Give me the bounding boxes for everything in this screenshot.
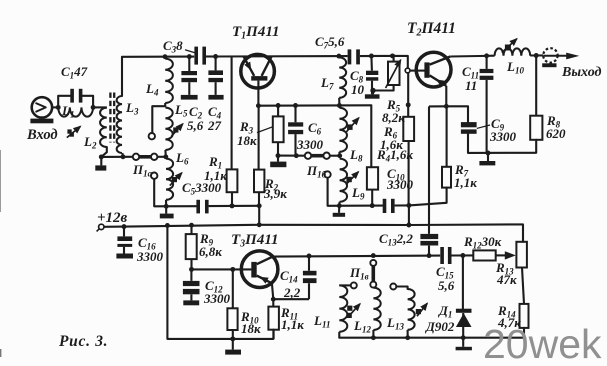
resistor R13 47k box	[516, 242, 527, 268]
node T2 base divider	[406, 102, 411, 107]
inductor L7	[339, 57, 346, 97]
switch P1b contact right	[323, 153, 329, 159]
node C8 top	[369, 54, 374, 59]
node T3 emitter	[271, 297, 276, 302]
switch P1a contact right	[151, 154, 157, 160]
svg-text:18к: 18к	[237, 133, 257, 148]
capacitor C1 47 plates	[70, 89, 74, 103]
resistor R10 18k box	[227, 308, 237, 330]
node R10 bottom	[230, 336, 235, 341]
node C8/R5 bottom	[371, 88, 376, 93]
diode D1 cathode bar	[456, 309, 472, 313]
tuning arrow L10	[505, 45, 511, 51]
node R6 bottom	[406, 203, 411, 208]
inductor L5	[165, 108, 172, 150]
capacitor C12 3300 plates	[183, 281, 200, 286]
input connector circle	[32, 97, 52, 117]
capacitor C16 3300 plates	[117, 236, 132, 241]
ground under L9	[333, 213, 345, 217]
switch P1a lower throw contact	[151, 173, 157, 179]
inductor L2	[100, 108, 107, 147]
ground under C12	[183, 300, 199, 305]
switch P1b lower throw contact	[324, 171, 330, 177]
wire C8 top lead	[370, 56, 373, 71]
wire L9 ground stub	[338, 206, 340, 213]
wire T3 emitter lead	[272, 283, 273, 299]
node R3 bottom	[276, 153, 281, 158]
input connector arrow	[36, 103, 46, 111]
svg-text:Рис. 3.: Рис. 3.	[59, 333, 108, 350]
svg-text:+12в: +12в	[97, 210, 128, 226]
node C4 top	[213, 54, 218, 59]
output arrow	[544, 55, 568, 57]
svg-text:С132,2: С132,2	[379, 231, 413, 248]
wire R6 column	[407, 71, 409, 117]
transistor T1 emitter	[244, 57, 254, 76]
terminal +12v tick	[97, 228, 100, 231]
capacitor C6 3300 plates	[288, 122, 303, 126]
wire +12 supply bus	[104, 224, 523, 241]
node gnd column top	[165, 223, 170, 228]
svg-text:Вход: Вход	[26, 127, 58, 143]
inductor L9	[340, 159, 347, 202]
node L3 bottom	[121, 154, 126, 159]
ground under input connector	[30, 119, 53, 124]
svg-text:R1230к: R1230к	[463, 234, 502, 251]
wire R3 leads	[277, 106, 279, 117]
node L8/L9 tap	[337, 153, 342, 158]
svg-text:Т3П411: Т3П411	[231, 232, 279, 250]
pointer line C9 label	[477, 125, 490, 128]
wire R11 leads	[272, 299, 274, 306]
capacitor C11 11 plates	[480, 69, 494, 73]
wire L6 ground stub	[165, 206, 167, 213]
wire T2 emitter node rails	[445, 86, 447, 107]
inductor L3	[117, 96, 122, 153]
svg-text:Т2П411: Т2П411	[407, 20, 456, 39]
ground under C16	[116, 254, 133, 259]
switch P1v contact bottom	[370, 282, 376, 288]
wire C13 bottom lead	[428, 246, 430, 256]
wire ground return left column to bottom bus	[167, 226, 273, 339]
wire C13 column from T2 emitter	[428, 106, 430, 233]
wire C8 node ground stub	[372, 91, 374, 95]
node P1v common	[371, 253, 376, 258]
output connector circle	[543, 48, 557, 62]
wire L2 bottom lead	[101, 147, 106, 157]
node C13 bottom	[427, 253, 432, 258]
wire switch P1a to L5	[157, 156, 165, 158]
resistor R4 1,6k box	[367, 167, 378, 189]
ground under R3	[270, 162, 286, 168]
svg-text:С53300: С53300	[182, 180, 222, 197]
resistor R7 1,1k box	[442, 167, 451, 188]
capacitor C5 3300 plates	[196, 200, 200, 214]
svg-text:3300: 3300	[386, 177, 414, 192]
wire R5 top lead	[393, 56, 395, 62]
svg-text:10: 10	[351, 82, 365, 97]
node R2 bottom	[257, 203, 262, 208]
svg-text:18к: 18к	[241, 321, 261, 336]
svg-text:Т1П411: Т1П411	[232, 24, 280, 42]
transistor T2 emitter	[430, 75, 447, 85]
transistor T3 base bar	[251, 262, 256, 278]
capacitor C7 5,6 plates	[348, 49, 352, 64]
transistor T3 circle	[241, 251, 278, 288]
ground under C2	[181, 95, 198, 100]
ground under L6	[160, 214, 174, 219]
wire bottom bus of band coils to R14	[339, 328, 524, 338]
inductor L13	[408, 289, 415, 330]
capacitor C9 3300 plates	[461, 122, 477, 127]
svg-text:3300: 3300	[203, 291, 231, 306]
node R1 bottom	[230, 203, 235, 208]
wire input gnd rail y157	[101, 156, 133, 158]
wire R4 bottom lead	[371, 190, 373, 206]
wire R7 top lead	[446, 106, 448, 167]
wire C9 node ground stub	[487, 153, 489, 161]
node R5 top	[390, 53, 395, 58]
switch P1v throw to L11	[351, 282, 357, 288]
node C14 top	[307, 254, 312, 259]
node R4 bottom	[370, 203, 375, 208]
tuning arrow L5	[173, 127, 178, 132]
resistor R2 3,9k box	[254, 170, 264, 193]
wire R9 leads	[190, 225, 192, 234]
wire L2 top lead	[93, 106, 107, 108]
switch P1a contact left	[133, 154, 139, 160]
svg-text:6,8к: 6,8к	[199, 244, 222, 259]
wire R10 bottom lead	[232, 330, 234, 339]
node R3 top	[276, 103, 281, 108]
wire T2 collector rail to output	[450, 55, 479, 58]
wire C14 leads	[308, 256, 310, 271]
transistor T3 collector	[257, 257, 273, 265]
svg-text:8,2к: 8,2к	[382, 110, 405, 125]
pointer line C3 label	[185, 50, 197, 53]
capacitor C4 plates	[208, 70, 223, 75]
capacitor C8 10 plates	[366, 71, 378, 75]
wire C1 loop	[58, 96, 70, 108]
resistor R14 4,7k box	[520, 304, 529, 328]
node L1 right	[91, 105, 96, 110]
potentiometer R5 8,2k box	[388, 62, 400, 85]
node L7/L8 junction	[337, 103, 342, 108]
inductor L4	[165, 59, 173, 103]
node C16 top	[122, 224, 127, 229]
node R2 bus	[257, 222, 262, 227]
wire R10 ground stub	[232, 339, 234, 350]
node L6 bottom	[164, 204, 169, 209]
node T3 base	[230, 267, 235, 272]
resistor R9 6,8k box	[186, 234, 197, 259]
node D1 top	[460, 253, 465, 258]
node C2 top	[187, 54, 192, 59]
ground under R10	[225, 350, 241, 355]
wire R8 top lead	[535, 56, 537, 116]
wire D1 ground stub	[462, 338, 464, 347]
variable arrow through R5	[386, 60, 401, 88]
node R9 bottom	[189, 267, 194, 272]
inductor L12	[373, 288, 380, 330]
wire C9/C11 ground rail	[468, 134, 536, 153]
wire R3 ground stub	[277, 156, 279, 162]
ground under L2	[95, 165, 106, 170]
node D1 bottom	[461, 335, 466, 340]
pointer line R3 label	[257, 127, 273, 133]
inductor L10	[495, 48, 531, 55]
svg-text:27: 27	[207, 118, 222, 133]
ground under C8/R5 node	[365, 94, 380, 98]
node C11 top	[484, 53, 489, 58]
wire L13 top from contact	[396, 287, 407, 290]
wire R5 bottom to C8 node	[373, 85, 394, 91]
wire R1 column	[231, 57, 233, 170]
transistor T2 base bar	[424, 62, 429, 77]
tuning arrow L8	[347, 124, 353, 129]
resistor R11 1,1k box	[268, 307, 279, 330]
node C6 bottom	[294, 153, 299, 158]
svg-text:47к: 47к	[496, 272, 517, 287]
svg-text:3300: 3300	[489, 129, 517, 144]
svg-text:R41,6к: R41,6к	[376, 147, 413, 164]
wire C11 leads	[486, 56, 488, 69]
wire L4 tap to switch	[152, 106, 165, 133]
svg-text:11: 11	[465, 78, 477, 93]
node L9 bottom	[337, 203, 342, 208]
transistor T2 circle	[416, 52, 451, 87]
wire R13-R14 link	[522, 268, 524, 304]
wire C6 leads	[294, 106, 296, 123]
switch P1a bar	[140, 155, 151, 159]
wire C12 inner lead	[190, 294, 192, 300]
switch P1b contact left	[305, 153, 311, 159]
node L4 top	[163, 54, 168, 59]
node C6 top	[293, 103, 298, 108]
tuning arrow L9	[346, 177, 351, 182]
capacitor C2 plates	[181, 71, 197, 75]
wire T3 base rail	[192, 268, 252, 270]
ground under output connector	[542, 63, 556, 67]
capacitor C3 8 plates	[194, 47, 198, 65]
transistor T1 base bar	[251, 76, 267, 81]
svg-text:2,2: 2,2	[283, 285, 301, 300]
wire T3 emitter node rail	[273, 298, 309, 300]
switch P1v throw to L13	[390, 284, 396, 290]
svg-text:3,9к: 3,9к	[263, 186, 287, 201]
tuning arrow L12	[347, 306, 352, 311]
inductor L6	[166, 159, 173, 200]
node R9 top	[189, 223, 194, 228]
node output tap	[534, 53, 539, 58]
switch P1a upper throw contact	[149, 133, 155, 139]
wiper arrow R12 into R13	[496, 254, 505, 256]
transistor T1 collector	[262, 57, 272, 76]
wire top rail from L3 corner to T2 base corner	[122, 57, 189, 96]
svg-text:20wek: 20wek	[483, 321, 602, 366]
node L7 top	[336, 54, 341, 59]
wire L11 top to contact	[339, 284, 351, 286]
svg-text:Д902: Д902	[425, 319, 455, 334]
node L13 bottom	[405, 335, 410, 340]
tuning arrow L1	[67, 129, 71, 133]
wire C16 leads	[123, 227, 125, 237]
node L1 left	[56, 105, 61, 110]
resistor R12 30k box	[473, 250, 495, 260]
svg-text:С75,6: С75,6	[315, 34, 345, 51]
transistor T3 emitter	[257, 276, 272, 284]
svg-text:1,1к: 1,1к	[454, 175, 477, 190]
node T2 emitter	[444, 104, 449, 109]
inductor L1	[58, 107, 93, 116]
wire input connector stub	[52, 106, 58, 108]
scan edge artifact	[0, 150, 1, 212]
switch P1v bar	[371, 266, 375, 281]
node L2 bottom	[99, 154, 104, 159]
tuning arrow L13	[416, 309, 421, 314]
switch P1v contact top	[370, 260, 376, 266]
tuning arrow L6	[172, 177, 177, 182]
capacitor C15 5,6 plates	[440, 247, 444, 264]
diode D1 anode triangle	[456, 313, 472, 327]
inductor L11	[339, 285, 347, 331]
svg-text:5,6: 5,6	[438, 278, 455, 293]
wire C2 leads	[188, 57, 190, 71]
capacitor C10 3300 plates	[383, 199, 387, 213]
wire T1 base column down to R2 and +12 bus	[257, 81, 259, 106]
svg-text:3300: 3300	[296, 137, 324, 152]
transistor T2 base contact circle	[405, 68, 410, 73]
ground under D1	[456, 347, 472, 351]
wire C8 bottom lead	[371, 81, 373, 95]
svg-text:620: 620	[546, 126, 566, 141]
wire R6 node to +12 bus	[408, 205, 410, 225]
wire R10 column	[232, 269, 234, 308]
node R6 bus	[406, 223, 411, 228]
transistor T2 collector	[430, 57, 451, 65]
wire D1 column	[462, 256, 464, 310]
wire C4 leads	[215, 57, 217, 71]
svg-text:5,6: 5,6	[187, 118, 204, 133]
node L5/L6 tap	[163, 154, 168, 159]
wire L2 ground stub	[100, 157, 102, 166]
wire node rail y155.6 R3 to L8/L9 tap	[278, 155, 305, 157]
switch P1b bar	[312, 154, 324, 158]
wire input tank rail y206 from switch to R2	[154, 179, 196, 207]
svg-text:1,1к: 1,1к	[281, 317, 304, 332]
node L12 bottom	[371, 335, 376, 340]
ground under C9/C11	[479, 161, 495, 165]
inductor L8	[339, 108, 347, 152]
core between L2 and L3	[109, 93, 111, 143]
transistor T1 circle	[241, 54, 275, 88]
resistor R3 18k box	[273, 116, 284, 142]
wire C12 top lead	[190, 269, 192, 281]
wire T3 collector rail y255.6	[273, 256, 440, 257]
capacitor C13 2,2 plates	[420, 234, 438, 239]
node T1 base	[256, 103, 261, 108]
node C9/C11 gnd	[486, 151, 491, 156]
terminal +12v circle	[99, 224, 104, 229]
wire base rail y106 from T1 to R4 corner	[258, 104, 371, 106]
wire mixer rail y205.5 from switch contact to R7	[328, 178, 383, 206]
wire T2 base lead	[410, 70, 425, 72]
ground under C4	[208, 95, 223, 100]
resistor R6 1,6k box	[403, 117, 414, 141]
resistor R1 1,1k box	[227, 169, 238, 192]
svg-text:С147: С147	[61, 64, 88, 81]
resistor R8 620 box	[530, 116, 542, 140]
svg-text:Выход: Выход	[561, 65, 602, 80]
svg-text:3300: 3300	[136, 249, 164, 264]
node C8/R5 junction big	[370, 88, 375, 93]
capacitor C14 2,2 plates	[303, 271, 317, 276]
